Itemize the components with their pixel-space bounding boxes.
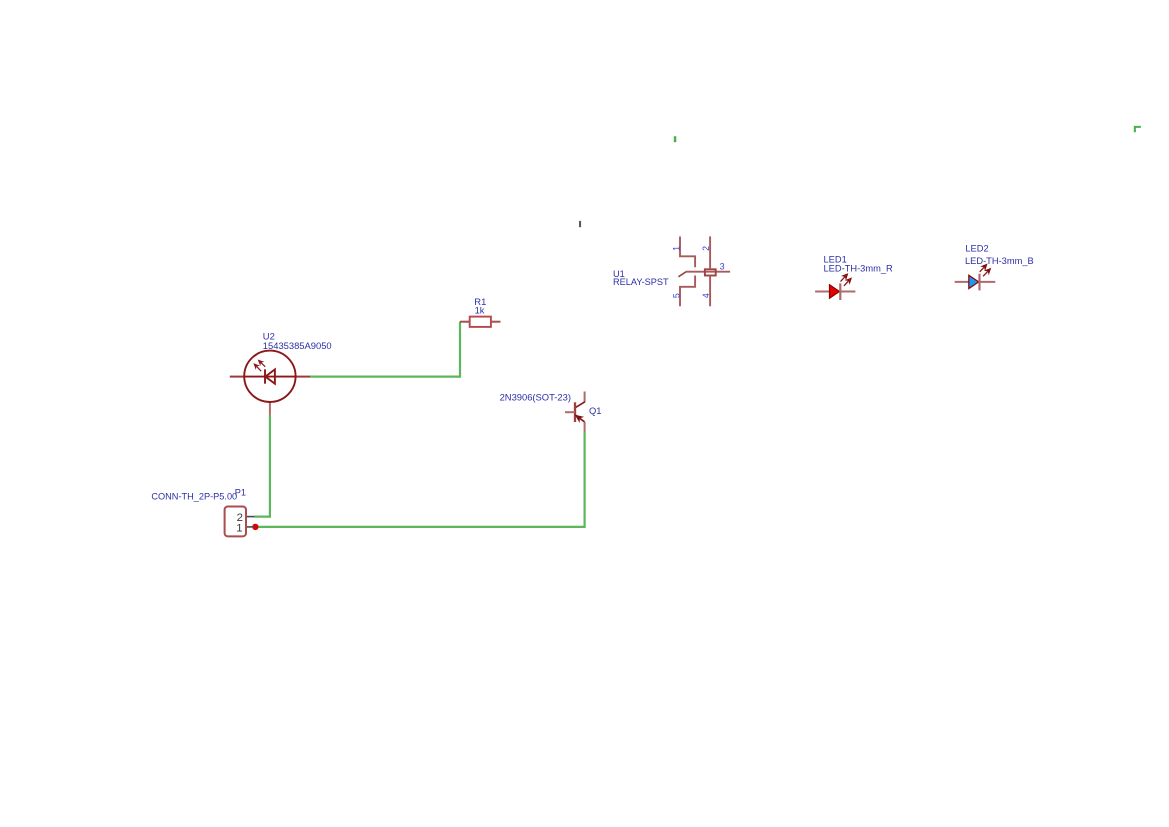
resistor R1 (460, 296, 501, 327)
U2 diode cathode bar (264, 369, 266, 383)
U2 internal line (244, 376, 295, 378)
LED1 pin line (815, 291, 855, 293)
svg-text:LED-TH-3mm_R: LED-TH-3mm_R (824, 264, 893, 274)
connector P1 (CONN-TH_2P-P5.00) (151, 488, 254, 537)
Q1 base pin (565, 411, 575, 413)
Q1 base bar (574, 402, 576, 422)
LED2 triangle (969, 275, 979, 288)
wire W1 (U2 right pin to corner below R1) (310, 376, 460, 378)
U2 pin bottom (269, 402, 271, 415)
net stub corner (green, top right) (1134, 126, 1141, 132)
wire W3 (U2 bottom pin down) (269, 415, 271, 516)
LED1 triangle (830, 285, 840, 298)
U1 pin 2 (709, 236, 711, 269)
svg-text:2: 2 (701, 246, 711, 251)
LED2 light arrow b (983, 269, 990, 277)
U2 light arrow a (254, 364, 261, 372)
P1 body box (225, 507, 246, 537)
U1 switch blade (678, 272, 686, 277)
svg-text:4: 4 (701, 293, 711, 298)
relay U1 (RELAY-SPST) (613, 236, 730, 306)
LED1 light arrow a (841, 274, 848, 282)
Q1 collector pin (584, 392, 586, 403)
Q1 collector diagonal (575, 402, 585, 408)
U1 pin 1 (680, 237, 695, 268)
Q1 emitter pin (584, 422, 586, 432)
U2 pin right (296, 376, 311, 378)
LED1 light arrow b (844, 278, 851, 286)
LED LED1 (red) (815, 255, 893, 300)
svg-text:Q1: Q1 (589, 405, 602, 416)
svg-text:LED-TH-3mm_B: LED-TH-3mm_B (965, 256, 1034, 266)
LED2 pin line (955, 281, 996, 283)
LED1 cathode bar (839, 283, 841, 300)
svg-text:RELAY-SPST: RELAY-SPST (613, 277, 669, 287)
wire W5 (P1 pin 1 long horizontal) (255, 526, 585, 528)
U1 pin 4 (709, 276, 711, 307)
P1 pin 2 line (246, 516, 255, 518)
svg-text:2N3906(SOT-23): 2N3906(SOT-23) (500, 391, 571, 402)
P1 pin 1 line (246, 526, 255, 528)
svg-text:3: 3 (720, 262, 725, 272)
svg-text:1: 1 (236, 522, 242, 534)
R1 pin left (460, 321, 470, 323)
LED2 light arrow a (980, 264, 987, 272)
U2 light arrow b (258, 360, 265, 367)
U1 common line (pin 3) (686, 271, 730, 273)
wire W2 (corner up to R1 left pin) (459, 322, 461, 378)
U1 pin 5 (680, 276, 695, 307)
pin stub (gray tick) (579, 221, 581, 227)
op-amp U2 (photodiode 15435385A9050) (230, 331, 332, 416)
LED2 cathode bar (978, 274, 980, 291)
U1 coil box (705, 269, 716, 275)
svg-text:LED2: LED2 (965, 244, 988, 254)
net stub (green tick, top middle) (674, 136, 677, 142)
U2 diode triangle (265, 369, 275, 383)
U2 pin left (230, 376, 245, 378)
Q1 emitter diagonal (575, 415, 584, 422)
junction dot at P1 pin 1 (252, 524, 258, 530)
svg-text:1: 1 (672, 246, 682, 251)
svg-text:1k: 1k (475, 305, 485, 316)
LED LED2 (blue) (955, 244, 1034, 291)
svg-text:5: 5 (672, 293, 682, 298)
R1 pin right (491, 321, 501, 323)
svg-text:CONN-TH_2P-P5.00: CONN-TH_2P-P5.00 (151, 491, 237, 501)
transistor Q1 (2N3906 PNP) (500, 391, 602, 431)
svg-text:15435385A9050: 15435385A9050 (263, 340, 332, 351)
wire W6 (up to Q1 emitter) (583, 431, 585, 528)
wire W4 (into P1 pin 2) (255, 515, 272, 517)
Q1 emitter arrowhead (576, 415, 583, 421)
U2 circle body (244, 351, 295, 402)
R1 body box (470, 317, 491, 327)
